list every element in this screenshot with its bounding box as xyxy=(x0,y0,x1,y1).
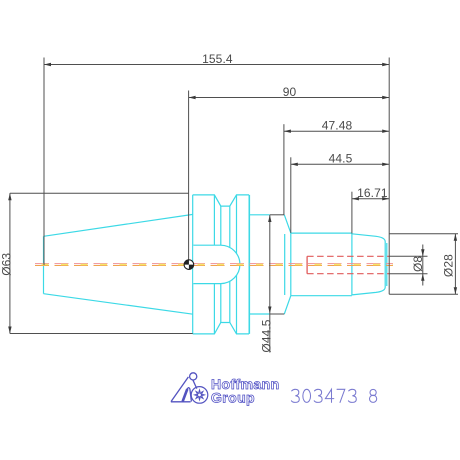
svg-text:90: 90 xyxy=(283,85,297,99)
svg-text:16.71: 16.71 xyxy=(357,186,388,200)
tip nose xyxy=(352,234,387,296)
gauge point dot xyxy=(184,260,194,270)
taper cone xyxy=(44,214,193,314)
dim 44.5 xyxy=(291,157,389,233)
bore d8 hidden xyxy=(307,256,389,273)
cylinder d44.5 xyxy=(249,215,291,314)
gripper groove bullet xyxy=(193,245,240,283)
dim d28 xyxy=(389,234,458,295)
neck d28 xyxy=(291,233,352,296)
svg-text:Ø28: Ø28 xyxy=(441,254,455,277)
dim 90 xyxy=(189,91,390,263)
centerline xyxy=(35,264,393,266)
flange xyxy=(193,195,250,334)
svg-text:Ø8: Ø8 xyxy=(411,256,425,272)
svg-text:Ø44.5: Ø44.5 xyxy=(260,319,274,352)
dim 155.4 xyxy=(44,58,389,295)
gear star xyxy=(193,388,206,401)
svg-text:44.5: 44.5 xyxy=(329,152,353,166)
part number xyxy=(291,389,376,402)
svg-text:47.48: 47.48 xyxy=(322,119,353,133)
hoffmann logo icon xyxy=(171,373,208,403)
dim 47.48 xyxy=(284,124,389,215)
dim d44.5 xyxy=(270,215,285,353)
dim d8 xyxy=(389,245,427,286)
svg-text:Group: Group xyxy=(211,389,255,405)
dim d63 xyxy=(10,193,193,333)
dim 16.71 xyxy=(352,192,389,234)
svg-text:Ø63: Ø63 xyxy=(0,253,13,276)
svg-text:155.4: 155.4 xyxy=(202,52,233,66)
